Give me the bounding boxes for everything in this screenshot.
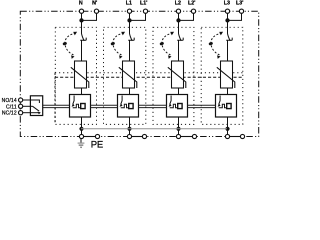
PE junction node column 2: [127, 127, 131, 131]
ground symbol: [78, 139, 85, 149]
label N: [79, 1, 83, 7]
disconnector F2 actuation arc with arrows: [110, 32, 125, 59]
terminal N: [79, 9, 83, 13]
label NO/14: [2, 98, 17, 104]
svg-text:L1': L1': [140, 1, 147, 7]
label L3: [224, 1, 230, 7]
terminal C/11: [19, 104, 23, 108]
bottom PE-prime terminal column 4: [240, 134, 244, 138]
wire N down to disconnector: [81, 13, 83, 33]
junction node L1: [127, 18, 131, 22]
label PE: [91, 139, 103, 150]
module M4 dotted boundary: [201, 27, 243, 124]
bottom PE terminal column 1: [79, 134, 83, 138]
wire disconnector to varistor: [178, 40, 180, 61]
thermal disconnector switch F2: blade: [128, 34, 134, 41]
wire junction to PE terminal column 1: [81, 129, 83, 135]
wire spark gap G1 to PE junction: [81, 117, 83, 129]
wire between bottom PE terminal pair column 4: [230, 136, 241, 138]
wire L3' to junction: [228, 13, 242, 20]
disconnector F1 actuation arc with arrows: [62, 32, 77, 59]
junction node L3: [225, 18, 229, 22]
triggered spark gap G4: [216, 95, 237, 118]
wire spark gap G2 to PE junction: [129, 117, 131, 129]
varistor MOV1: [71, 61, 89, 88]
terminal L3: [225, 9, 229, 13]
PE junction node column 1: [79, 127, 83, 131]
svg-text:N': N': [92, 1, 97, 7]
wire between bottom PE terminal pair column 3: [181, 136, 193, 138]
disconnector F4 actuation arc with arrows: [208, 32, 223, 59]
label L1': [140, 1, 147, 7]
terminal L3': [239, 9, 243, 13]
bottom PE-prime terminal column 3: [192, 134, 196, 138]
wire N' to junction: [82, 13, 97, 20]
svg-text:NC/12: NC/12: [2, 111, 17, 117]
remote signalling contact box K1: [30, 96, 42, 116]
triggered spark gap G3: [167, 95, 188, 118]
svg-text:N: N: [79, 1, 83, 7]
svg-text:NO/14: NO/14: [2, 98, 17, 104]
label L1: [126, 1, 132, 7]
junction node N: [79, 18, 83, 22]
triggered spark gap G2: [118, 95, 139, 118]
wire between bottom PE terminal pair column 1: [84, 136, 96, 138]
terminal L1': [143, 9, 147, 13]
wire varistor to spark gap: [227, 88, 229, 95]
wire varistor to spark gap: [129, 88, 131, 95]
label L2: [175, 1, 181, 7]
PE junction node column 4: [225, 127, 229, 131]
bottom PE terminal column 3: [176, 134, 180, 138]
wire terminal NC/12 to contact box: [23, 112, 31, 114]
wire junction to PE terminal column 3: [178, 129, 180, 135]
svg-text:L3': L3': [236, 1, 243, 7]
wire disconnector to varistor: [81, 40, 83, 61]
svg-text:L2': L2': [188, 1, 195, 7]
wire terminal NO/14 to contact box: [23, 99, 31, 101]
thermal disconnector switch F4: blade: [226, 34, 232, 41]
wire spark gap G3 to PE junction: [178, 117, 180, 129]
varistor MOV4: [217, 61, 235, 88]
label N': [92, 1, 97, 7]
varistor MOV2: [119, 61, 137, 88]
wire disconnector to varistor: [129, 40, 131, 61]
wire L2 down to disconnector: [178, 13, 180, 33]
monitoring bus double line segment 2: [139, 105, 167, 107]
label C/11: [6, 104, 17, 110]
svg-text:L1: L1: [126, 1, 132, 7]
dotted separation line: [55, 72, 243, 74]
wire varistor to spark gap: [81, 88, 83, 95]
svg-text:L2: L2: [175, 1, 181, 7]
bottom PE terminal column 4: [225, 134, 229, 138]
terminal N': [94, 9, 98, 13]
enclosure border (dash-dot): [20, 11, 258, 136]
wire L1 down to disconnector: [129, 13, 131, 33]
wire disconnector to varistor: [227, 40, 229, 61]
label L2': [188, 1, 195, 7]
bottom PE-prime terminal column 2: [142, 134, 146, 138]
module M2 dotted boundary: [104, 27, 146, 124]
terminal NO/14: [19, 98, 23, 102]
varistor MOV3: [168, 61, 186, 88]
bottom PE-prime terminal column 1: [95, 134, 99, 138]
wire spark gap G4 to PE junction: [227, 117, 229, 129]
dashed separation line: [55, 76, 244, 78]
triggered spark gap G1: [70, 95, 91, 118]
monitoring bus double line segment 0: [43, 105, 69, 107]
wire L3 down to disconnector: [227, 13, 229, 33]
monitoring bus double line segment 3: [188, 105, 216, 107]
module M3 dotted boundary: [153, 27, 194, 124]
wire junction to PE terminal column 2: [129, 129, 131, 135]
svg-text:L3: L3: [224, 1, 230, 7]
label NC/12: [2, 111, 17, 117]
module M1 dotted boundary: [55, 27, 96, 124]
wire between bottom PE terminal pair column 2: [132, 136, 143, 138]
junction node L2: [176, 18, 180, 22]
dashed lower-left module edge overlay: [54, 73, 56, 125]
PE equipotential bus wire: [81, 128, 227, 130]
wire terminal C/11 to contact box: [23, 105, 31, 107]
label L3': [236, 1, 243, 7]
terminal L1: [127, 9, 131, 13]
svg-text:C/11: C/11: [6, 104, 17, 110]
wire L2' to junction: [179, 13, 194, 20]
thermal disconnector switch F3: blade: [177, 34, 183, 41]
svg-text:PE: PE: [91, 139, 103, 150]
monitoring bus double line segment 1: [91, 105, 118, 107]
disconnector F3 actuation arc with arrows: [159, 32, 174, 59]
bottom PE terminal column 2: [127, 134, 131, 138]
PE junction node column 3: [176, 127, 180, 131]
thermal disconnector switch F1: blade: [80, 34, 86, 41]
terminal L2: [176, 9, 180, 13]
wire varistor to spark gap: [178, 88, 180, 95]
wire L1' to junction: [130, 13, 146, 20]
terminal NC/12: [19, 111, 23, 115]
terminal L2': [191, 9, 195, 13]
wire junction to PE terminal column 4: [227, 129, 229, 135]
